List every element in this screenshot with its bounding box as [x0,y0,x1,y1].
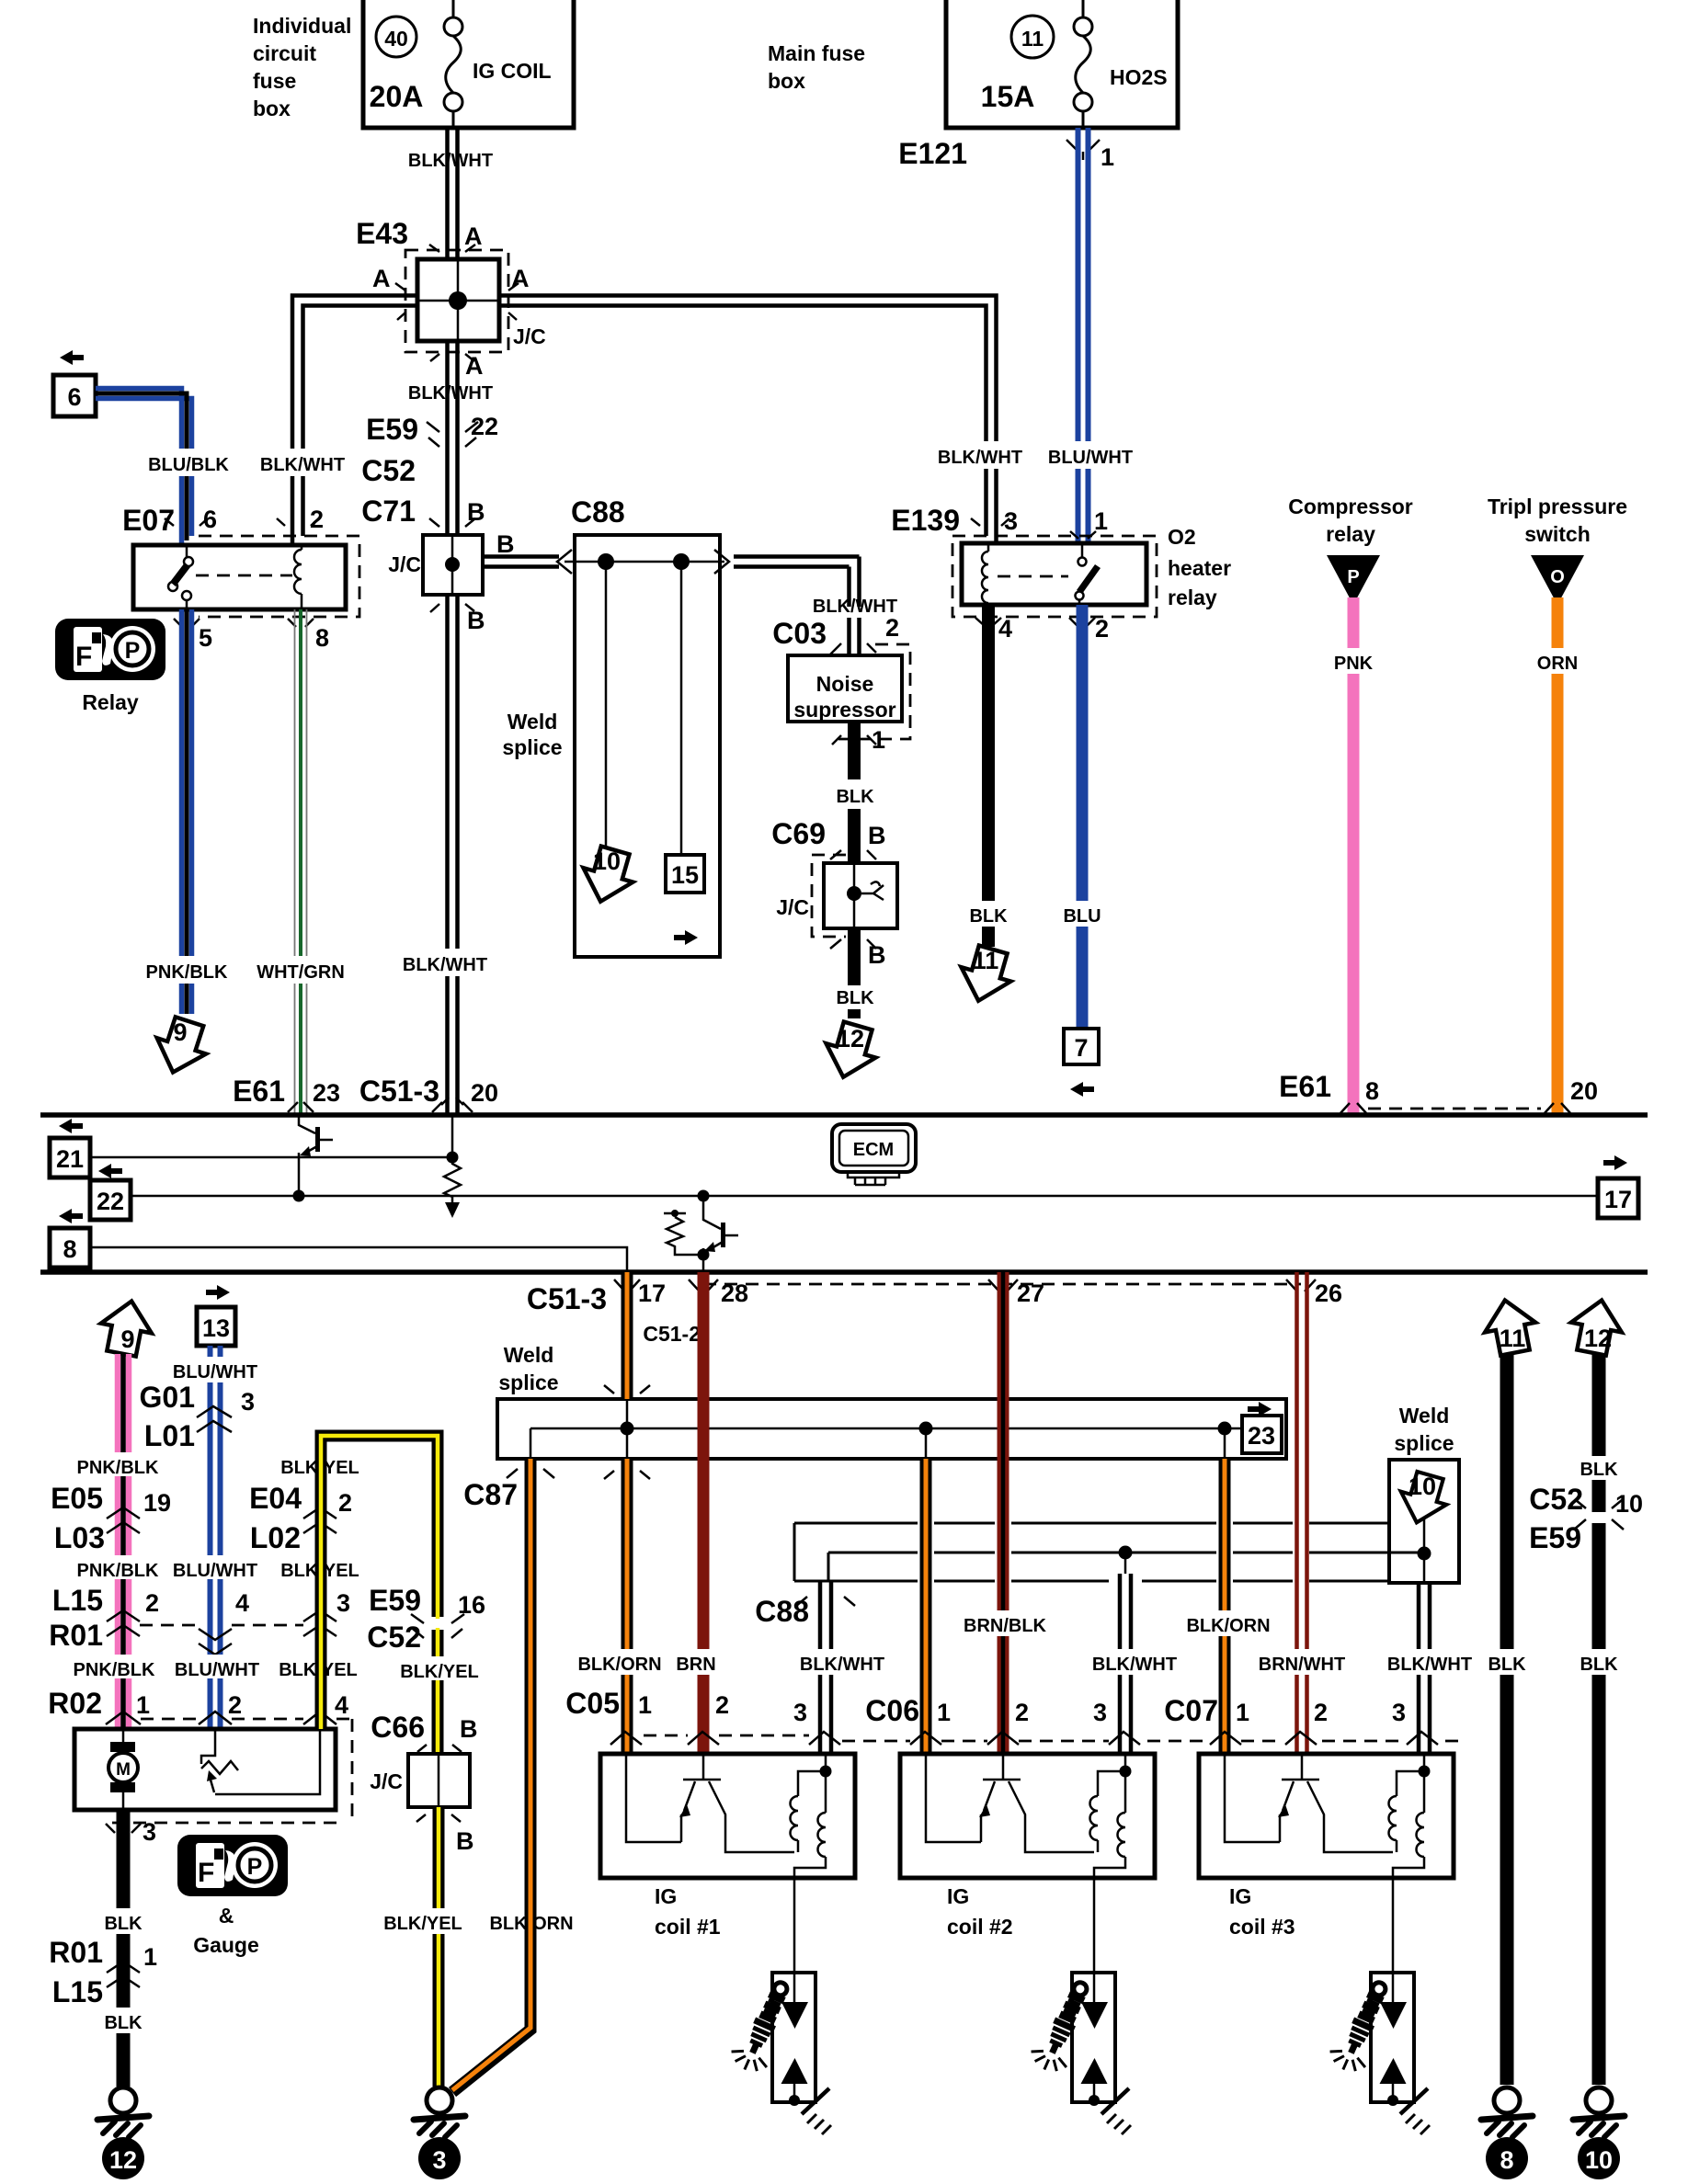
relay box E07 [133,545,346,609]
wire color label BLK/ORN (C05-1) [577,1649,661,1675]
junction dot 22-line right [698,1190,710,1202]
connector E59/C52 pin16 [367,1584,485,1654]
svg-text:11: 11 [973,947,999,974]
terminal box 13 [197,1307,235,1346]
wire BLK/WHT bus to C06 pin3 [1120,1553,1131,1754]
wire color label BLK (right2) [1573,1649,1624,1675]
svg-text:8: 8 [63,1235,76,1263]
wire from 22 to terminal 17 [129,1195,1598,1198]
svg-text:22: 22 [471,413,498,440]
svg-text:Noise: Noise [816,672,874,696]
wire label BLK (R02-3) [97,1908,148,1934]
svg-text:Tripl pressure: Tripl pressure [1488,495,1627,518]
svg-text:BLK/WHT: BLK/WHT [1387,1655,1472,1675]
junction J/C E43 dashed outline [405,250,508,352]
terminal box 15 (in C88) [666,855,704,893]
Weld splice label (right) [1394,1404,1454,1455]
fuse 40 circle [376,17,416,57]
Weld splice label (C88) [502,710,562,759]
wire label BLK/WHT above ECM [403,949,491,976]
svg-text:BLK: BLK [836,787,874,807]
svg-text:17: 17 [1604,1186,1632,1213]
svg-text:2: 2 [885,614,899,642]
wire BLK/ORN C51-3/17 to C05 pin1 [622,1272,633,1754]
svg-text:box: box [768,69,805,93]
O2 heater relay label [1168,525,1231,609]
individual circuit fuse box label [253,14,351,120]
small left arrow under box 7 [1070,1082,1094,1097]
svg-text:3: 3 [793,1699,807,1726]
svg-text:L15: L15 [52,1584,103,1617]
wire BLU/WHT from box13 to pump R02 pin2 [211,1346,221,1729]
FP relay badge [55,619,165,680]
ground terminal disc 10 [1578,2137,1620,2179]
wire color label BLK/WHT (C06-3) [1092,1649,1178,1675]
connector C71 pin B [361,495,485,528]
svg-text:23: 23 [313,1079,340,1107]
wire BLK to C69 [848,809,861,863]
svg-text:E43: E43 [356,217,408,250]
wire BRN/WHT pin26 to C07 pin2 [1297,1272,1307,1754]
svg-text:9: 9 [173,1018,187,1046]
svg-text:C66: C66 [371,1711,425,1744]
terminal box 22 [90,1180,131,1220]
svg-text:4: 4 [335,1691,348,1719]
fuse F40 symbol [444,0,462,128]
svg-text:BRN/WHT: BRN/WHT [1259,1655,1345,1675]
svg-text:O: O [1550,567,1565,587]
svg-text:Weld: Weld [1399,1404,1450,1428]
svg-text:BLK/YEL: BLK/YEL [383,1914,462,1934]
svg-text:BLK: BLK [1580,1655,1618,1675]
connector C52/E59 pin10 on right BLK wire [1529,1483,1643,1554]
svg-text:BLK: BLK [1580,1460,1618,1480]
svg-text:3: 3 [1093,1699,1107,1726]
svg-text:BLK/WHT: BLK/WHT [1092,1655,1177,1675]
svg-text:BLK: BLK [1488,1655,1526,1675]
wire color label BLK/WHT (C07-3) [1387,1649,1473,1675]
Weld splice label (upper bus) [498,1343,558,1394]
connector labels C06 row [865,1694,1107,1727]
svg-text:C71: C71 [361,495,416,528]
shield chevron right of C88 [714,550,729,574]
O2 heater relay dashed outline [952,536,1157,617]
ground terminal disc 12 [102,2137,144,2179]
connector E61 pin20 (ORN) [1545,1077,1598,1113]
terminal box 23 [1242,1416,1282,1453]
svg-text:C07: C07 [1164,1694,1218,1727]
wire BLK/YEL below C66 to ground 3 [433,1807,445,2087]
wire BLK/WHT bus to C05 pin3 [820,1581,831,1754]
wire PNK/BLK from arrow9 to pump R02 pin1 [118,1354,129,1729]
wire color label BRN/WHT (C07-2) [1259,1649,1345,1675]
dashed link L15/R01 pins [140,1624,303,1627]
FP badge (gauge) [177,1835,288,1896]
connector E139 label and pins [891,504,1108,539]
ignition coil 3 [1199,1754,1454,1878]
trip pressure switch label [1488,495,1627,546]
svg-text:1: 1 [1101,143,1114,171]
svg-text:coil #1: coil #1 [655,1915,721,1939]
svg-text:BLK/WHT: BLK/WHT [403,955,487,975]
wire label BLK/YEL (L15-3) [280,1555,359,1581]
wire BLK to arrow 12 [848,1009,861,1018]
transistor Q1 (E61/23) [299,1115,333,1196]
wire label BLK (R01-1) [97,2008,148,2033]
connector E61 pin23 [233,1075,340,1112]
wire label ORN [1530,648,1585,674]
svg-text:10: 10 [1409,1473,1436,1500]
svg-text:E59: E59 [1529,1521,1581,1554]
svg-text:BLK/WHT: BLK/WHT [260,455,345,475]
svg-text:C05: C05 [565,1687,620,1720]
wire BLU/BLK from box6 to E07 pin6 [96,389,192,546]
svg-text:fuse: fuse [253,69,296,93]
connector C69 pin B [771,817,885,859]
svg-text:8: 8 [315,624,329,652]
relay box E139 (O2 heater relay) [962,543,1146,605]
wire PNK/BLK (blue drawn) E07 pin5 to arrow 9 [182,609,192,1014]
junction dot (C87 splice) [621,1422,634,1436]
wire label BLK/WHT (E07 pin2) [259,449,347,476]
ground symbol (3) [414,2087,465,2137]
svg-text:J/C: J/C [370,1769,403,1793]
dashed link pin28 to pin26 [703,1283,1301,1286]
svg-text:BLK: BLK [104,2013,143,2033]
svg-text:22: 22 [97,1188,124,1215]
svg-text:BLK/WHT: BLK/WHT [408,383,493,404]
junction J/C E43 box [417,259,499,341]
arrow terminal 12 (top right) [1567,1295,1627,1358]
wire double to C88 from J/C [483,557,559,567]
connector C66 pin B [371,1711,477,1752]
svg-text:splice: splice [1394,1431,1454,1455]
arrow terminal 12 (C69 to ground path) [818,1018,883,1084]
svg-text:C88: C88 [755,1595,809,1628]
svg-text:C52: C52 [361,454,416,487]
connector ticks C51-3/17 top [604,1385,650,1479]
dashed pin line C05 [644,1735,809,1737]
svg-text:IG: IG [947,1884,969,1908]
svg-text:R02: R02 [48,1687,102,1720]
weld splice bus box [497,1399,1286,1459]
svg-text:BLU/WHT: BLU/WHT [173,1561,257,1581]
wire label BLK [963,901,1013,927]
arrow terminal 11 (E139 pin4) [953,942,1018,1007]
svg-text:J/C: J/C [776,895,809,919]
resistor inside ECM (C51-3/20) [444,1157,461,1202]
fuse box (individual circuit) [363,0,574,128]
svg-text:3: 3 [1392,1699,1406,1726]
svg-text:splice: splice [502,735,562,759]
pin B below C66 [416,1814,474,1855]
wire label WHT/GRN [256,956,346,984]
fuel level sender [201,1729,320,1794]
svg-text:BLK/WHT: BLK/WHT [408,151,493,171]
svg-text:C52: C52 [367,1621,421,1654]
svg-text:1: 1 [872,726,885,754]
svg-text:M: M [116,1760,131,1780]
wire label BLK/ORN (C87 ground3) [489,1908,573,1934]
svg-text:1: 1 [1236,1699,1249,1726]
ignition coil 1 [600,1754,855,1878]
compressor relay label [1288,495,1413,546]
svg-text:21: 21 [56,1145,84,1173]
junction J/C C52/C71 box [423,535,483,595]
wire label BLK/WHT (E139 pin3) [936,441,1024,469]
wire BLK/ORN C87 from splice to ground 3 [452,1459,530,2092]
contact squiggle C69 [861,882,884,900]
wire drop to arrow 10 [605,562,608,853]
arrow terminal 9 (down) [148,1014,213,1080]
connector E04/L02 pin2 [249,1482,352,1554]
svg-text:27: 27 [1017,1280,1044,1307]
wire label BLU/BLK [145,449,233,476]
connector G01/L01 pin3 [140,1381,256,1452]
svg-text:BLK/YEL: BLK/YEL [400,1662,479,1682]
connector V marks C05 pins [610,1732,840,1745]
wire BLK from R02 pin3 to ground 12 [117,1810,131,2087]
wire label BLK/YEL (R02-4) [279,1655,358,1680]
right arrow above terminal 17 [1603,1155,1627,1170]
resistor inside ECM (Q2 base) [664,1210,703,1255]
svg-text:A: A [464,222,483,250]
noise suppressor box C03 [788,655,902,722]
junction dot C69 [847,886,861,901]
svg-text:9: 9 [120,1325,134,1353]
wire BLK from C03 pin1 [848,722,861,779]
svg-text:BLK/WHT: BLK/WHT [800,1655,884,1675]
svg-text:1: 1 [1094,507,1108,535]
svg-text:12: 12 [1584,1325,1612,1352]
connector E59/C52 pin22 [361,413,498,487]
svg-text:BLU/WHT: BLU/WHT [175,1660,259,1680]
wire color label BLK (right1) [1481,1649,1532,1675]
junction dot E43 [449,291,467,310]
svg-text:15A: 15A [981,80,1035,113]
svg-text:switch: switch [1524,522,1591,546]
svg-text:23: 23 [1248,1422,1275,1450]
svg-text:20A: 20A [370,80,424,113]
terminal box 21 [50,1138,90,1177]
ground terminal disc 8 [1486,2137,1528,2179]
svg-text:3: 3 [336,1589,350,1617]
terminal box 6 [53,375,96,416]
wire color label BLK/WHT (C05-3) [800,1649,885,1675]
svg-text:L02: L02 [250,1521,301,1554]
svg-text:E139: E139 [891,504,960,537]
right arrow above terminal 23 [1248,1402,1272,1416]
wire BLU from E139 pin2 to terminal 7 [1077,605,1089,1029]
arrowhead down [445,1202,460,1218]
svg-text:C69: C69 [771,817,826,850]
svg-text:relay: relay [1168,586,1217,609]
relay coil E139 [982,543,988,605]
relay E07 internal dashed [196,574,292,577]
svg-text:heater: heater [1168,556,1231,580]
second bus left verticals [794,1523,828,1581]
svg-text:P: P [1347,567,1359,587]
spark plug 3 [1326,1878,1430,2134]
svg-text:ORN: ORN [1537,654,1578,674]
svg-text:G01: G01 [140,1381,195,1414]
svg-text:8: 8 [1500,2146,1513,2174]
svg-text:A: A [511,265,530,292]
main fuse box label [768,41,865,93]
svg-text:26: 26 [1315,1280,1342,1307]
left arrow above terminal 21 [59,1119,83,1133]
junction J/C C69 box [824,863,897,928]
splice line [530,1399,1242,1459]
connector L15/R01 pins 2,4,3 [49,1584,350,1655]
spark plug 1 [727,1878,831,2134]
connector labels C05 row [565,1687,807,1726]
svg-text:J/C: J/C [513,324,546,348]
relay E07 dashed pin line and outline [199,536,359,617]
svg-text:PNK/BLK: PNK/BLK [77,1458,159,1478]
svg-text:BLK/ORN: BLK/ORN [1186,1616,1270,1636]
svg-text:3: 3 [432,2146,446,2174]
wire BLK/ORN pin23-splice to C06 pin1 [920,1459,932,1754]
terminal box 7 [1064,1029,1099,1064]
wire label BLU/WHT (L15-4) [173,1555,257,1581]
svg-text:2: 2 [338,1489,352,1517]
svg-text:C03: C03 [772,617,827,650]
wire BLK/WHT E43 right branch to E139 pin3 [499,296,997,544]
svg-text:O2: O2 [1168,525,1196,549]
svg-text:BRN: BRN [676,1655,715,1675]
right arrow above terminal 13 [206,1285,230,1300]
svg-text:HO2S: HO2S [1110,65,1168,89]
svg-text:splice: splice [498,1371,558,1394]
wire BLU/WHT E121 down to E139 pin1 [1078,128,1089,543]
svg-text:12: 12 [837,1025,864,1052]
wire BLK/WHT to C07 pin3 [1419,1583,1430,1754]
ground symbol (8) [1481,2087,1533,2137]
wire BLK right 2 (to ground 10) [1592,1353,1606,2085]
svg-text:10: 10 [1615,1490,1643,1518]
svg-text:J/C: J/C [388,552,421,576]
connector C88 (C05 pin3) [755,1595,855,1628]
wire ORN trip pressure switch to ECM E61/20 [1552,597,1564,1115]
connector C51-3 pin17 below rail [527,1280,666,1315]
connector R02 pins 1,2,4 [48,1687,348,1724]
wire from 8 down to bottom rail [90,1247,627,1272]
second bus line B [828,1552,1424,1554]
svg-text:11: 11 [1500,1325,1526,1352]
junction J/C C66 box [408,1754,470,1807]
svg-text:coil #2: coil #2 [947,1915,1013,1939]
junction dot C07 pin3 [1418,1547,1431,1561]
pins 5 and 8 below E07 [174,619,329,652]
svg-text:L15: L15 [52,1975,103,2008]
svg-text:C87: C87 [463,1478,518,1511]
J/C C69 dashed outline [812,855,846,937]
arrow terminal 10 (weld splice right) [1394,1469,1453,1529]
wire BLK/ORN splice to C07 pin1 [1219,1459,1231,1754]
svg-text:8: 8 [1365,1077,1379,1105]
svg-text:E61: E61 [233,1075,285,1108]
svg-text:BLK: BLK [969,906,1008,927]
transistor Q2 (C51-2/28) [698,1196,739,1272]
junction dot C88 right [673,553,690,570]
svg-text:BLU/BLK: BLU/BLK [148,455,229,475]
svg-text:PNK/BLK: PNK/BLK [146,962,228,983]
wire BLK below C69 [848,928,861,985]
junction dot 22-line left [293,1190,305,1202]
wire label BLU/WHT (box13) [171,1357,259,1382]
svg-text:1: 1 [937,1699,951,1726]
svg-text:20: 20 [471,1079,498,1107]
spark plug 2 [1027,1878,1131,2134]
pin 4 and 2 below E139 [975,615,1109,643]
svg-text:10: 10 [1585,2146,1613,2174]
small right arrow under 15 [674,930,698,945]
wire BLK/WHT E43 left branch to E07 pin2 [292,296,417,546]
ground terminal disc 3 [418,2137,461,2179]
connector ticks E43 left/right/bottom [395,283,519,361]
ECM top rail [40,1112,1648,1118]
connector E07 label and pins [122,504,324,537]
svg-text:2: 2 [715,1691,729,1719]
wire BRN/BLK pin27 to C06 pin2 [998,1272,1009,1754]
wire color label BLK/ORN (C07-1) [1186,1610,1270,1636]
svg-text:coil #3: coil #3 [1229,1915,1295,1939]
dashed pin line C06/C07 [842,1740,1458,1743]
svg-text:Weld: Weld [508,710,558,734]
svg-text:B: B [496,530,515,558]
weld splice box right (arrow 10) [1389,1460,1459,1583]
svg-text:E121: E121 [898,137,967,170]
wire BLK/WHT J/C down to ECM C51-3/20 [448,595,458,1115]
wire label BLK/YEL (E04) [280,1452,359,1478]
left arrow left of terminal 8 [59,1209,83,1223]
svg-text:C51-3: C51-3 [359,1075,439,1108]
ground symbol (12) [97,2087,149,2137]
svg-text:E05: E05 [51,1482,103,1515]
fuel pump motor M [108,1729,138,1810]
svg-text:C88: C88 [571,495,625,529]
wire PNK compressor relay to ECM E61/8 [1348,597,1360,1115]
IG coil #2 label [947,1884,1013,1939]
svg-text:BLK/WHT: BLK/WHT [938,448,1022,468]
wire color label BRN (C05-2) [671,1649,720,1675]
connector C51-3 pin20 [359,1075,498,1112]
svg-text:5: 5 [199,624,212,652]
ignition coil 2 [900,1754,1155,1878]
svg-text:circuit: circuit [253,41,316,65]
main fuse box [946,0,1178,128]
junction dot C52/C71 [445,557,460,572]
wire label PNK/BLK [143,956,231,984]
wire label PNK/BLK (R02) [74,1655,155,1680]
svg-text:10: 10 [593,847,621,875]
svg-text:15: 15 [671,861,699,889]
svg-text:E61: E61 [1279,1070,1331,1103]
connector E05/L03 pin19 [51,1482,171,1554]
arrow terminal 9 (up, lower left) [97,1296,157,1359]
connector C87 [463,1469,554,1511]
connector pin27 below rail [988,1280,1044,1307]
shield chevron left of C88 [557,550,572,574]
relay switch E07 [168,545,193,609]
connector C51-2 pin28 below rail [643,1280,748,1346]
svg-text:19: 19 [143,1489,171,1517]
svg-text:2: 2 [145,1589,159,1617]
second bus line C [794,1580,1389,1583]
left arrow above terminal 6 [60,350,84,365]
svg-text:Gauge: Gauge [193,1933,259,1957]
